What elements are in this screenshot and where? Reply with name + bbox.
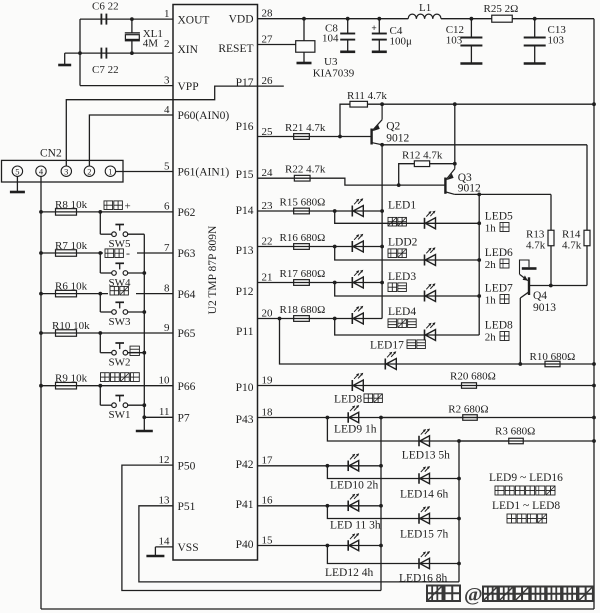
junction Q3 emitter bbox=[453, 102, 457, 106]
LED LED16 bbox=[419, 551, 430, 569]
svg-text:VSS: VSS bbox=[178, 542, 199, 554]
LED8 start label bbox=[334, 394, 382, 406]
wire P7 row pin11 bbox=[144, 416, 173, 418]
svg-text:4.7k: 4.7k bbox=[562, 240, 582, 252]
junction sw common y=312 bbox=[142, 310, 146, 314]
junction sw common y=405.2 bbox=[142, 403, 146, 407]
LED LED7 bbox=[425, 283, 436, 301]
Q2 ref labels bbox=[386, 121, 409, 145]
svg-text:LED10 2h: LED10 2h bbox=[330, 480, 378, 492]
U2 pin 20 label P11 bbox=[236, 307, 273, 338]
svg-text:100μ: 100μ bbox=[390, 36, 413, 48]
U2 pin 13 label P51 bbox=[159, 495, 196, 513]
resistor R12 bbox=[414, 161, 429, 167]
svg-text:27: 27 bbox=[262, 33, 274, 45]
wire switch common bus bbox=[143, 234, 145, 417]
L1 ref label bbox=[419, 2, 431, 14]
svg-text:20: 20 bbox=[262, 307, 274, 319]
svg-text:19: 19 bbox=[262, 374, 274, 386]
svg-text:R6 10k: R6 10k bbox=[55, 281, 88, 293]
svg-text:Q4: Q4 bbox=[533, 290, 547, 302]
svg-text:2h: 2h bbox=[485, 332, 497, 344]
svg-text:R22 4.7k: R22 4.7k bbox=[285, 164, 326, 176]
wire feed LED14 bbox=[327, 466, 459, 479]
junction bus1234 LDD2 bbox=[380, 245, 384, 249]
wire row LED10 bbox=[258, 465, 382, 467]
svg-text:9012: 9012 bbox=[386, 133, 409, 145]
svg-text:LED7: LED7 bbox=[485, 283, 513, 295]
R21 value label bbox=[285, 122, 326, 134]
SW4 ref label bbox=[109, 277, 132, 289]
junction rail right edge bbox=[592, 102, 596, 106]
ground VSS bbox=[146, 547, 164, 556]
R15 value label bbox=[280, 197, 326, 209]
wire feed LED16 bbox=[327, 546, 459, 564]
svg-text:103: 103 bbox=[548, 35, 565, 47]
junction key bus row R8 10k bbox=[39, 210, 43, 214]
LED16 label bbox=[399, 573, 447, 585]
wire P50 route bbox=[122, 465, 381, 590]
resistor R14 bbox=[584, 230, 590, 246]
svg-text:28: 28 bbox=[262, 8, 274, 20]
wire Q2 base bbox=[340, 136, 372, 138]
U2 pin 16 label P41 bbox=[236, 495, 273, 511]
svg-text:6: 6 bbox=[164, 201, 170, 213]
U2 pin 26 label P17 bbox=[236, 75, 273, 89]
R9 10k value label bbox=[55, 373, 88, 385]
svg-text:-: - bbox=[126, 246, 130, 260]
wire feed LED6 bbox=[335, 247, 480, 261]
C8 labels bbox=[322, 23, 339, 45]
C6 value label bbox=[92, 1, 119, 13]
LED LED17 bbox=[385, 351, 396, 369]
svg-text:LED8: LED8 bbox=[485, 320, 513, 332]
svg-text:P15: P15 bbox=[236, 169, 254, 181]
svg-text:C6 22: C6 22 bbox=[92, 1, 119, 13]
svg-text:P63: P63 bbox=[178, 248, 196, 260]
wire R11 left leg bbox=[340, 104, 350, 136]
wire key row y=211.9 bbox=[41, 211, 173, 213]
U2 pin 22 label P13 bbox=[236, 235, 273, 256]
wire R14 top leg bbox=[586, 145, 588, 231]
svg-text:SW1: SW1 bbox=[109, 409, 131, 421]
svg-text:24: 24 bbox=[262, 167, 274, 179]
resistor R8 bbox=[56, 209, 77, 216]
junction busA LED10 bbox=[379, 464, 383, 468]
wire row LED9 bbox=[258, 417, 478, 419]
svg-text:P60(AIN0): P60(AIN0) bbox=[178, 110, 230, 122]
junction tap LED6 bbox=[333, 245, 337, 249]
junction busB LED14 bbox=[457, 477, 461, 481]
LED LED10 bbox=[348, 453, 359, 471]
svg-text:P13: P13 bbox=[236, 245, 254, 257]
junction bus5678 top bbox=[477, 193, 481, 197]
svg-text:18: 18 bbox=[262, 406, 274, 418]
U2 pin 24 label P15 bbox=[236, 167, 273, 181]
junction R10 right edge bbox=[592, 362, 596, 366]
junction bus5678 LED6 bbox=[477, 258, 481, 262]
junction C12 top bbox=[470, 17, 474, 21]
svg-text:LED9 ~ LED16: LED9 ~ LED16 bbox=[489, 472, 563, 484]
resistor R15 bbox=[294, 208, 310, 214]
C7 value label bbox=[92, 64, 119, 76]
svg-text:10: 10 bbox=[159, 375, 171, 387]
junction tap LED16 bbox=[326, 544, 330, 548]
LED4 labels bbox=[388, 306, 416, 328]
U2 pin 10 label P66 bbox=[159, 375, 196, 393]
svg-text:R21 4.7k: R21 4.7k bbox=[285, 122, 326, 134]
junction busA LED 11 bbox=[379, 504, 383, 508]
LED LED13 bbox=[419, 429, 430, 447]
wire bottom rail bbox=[41, 608, 594, 610]
svg-text:P65: P65 bbox=[178, 328, 196, 340]
wire VPP row pin3 bbox=[80, 85, 173, 87]
svg-text:P61(AIN1): P61(AIN1) bbox=[178, 167, 230, 179]
svg-text:23: 23 bbox=[262, 200, 274, 212]
wire row LDD2 bbox=[258, 246, 383, 248]
junction P11 bypass bbox=[278, 317, 282, 321]
svg-text:9012: 9012 bbox=[458, 183, 481, 195]
wire R12 right leg bbox=[430, 163, 455, 165]
wire row LED12 bbox=[258, 545, 382, 547]
resistor R18 bbox=[294, 316, 310, 322]
LED LED14 bbox=[419, 466, 430, 484]
R13 value labels bbox=[526, 229, 546, 252]
svg-text:P40: P40 bbox=[236, 539, 254, 551]
LED13 label bbox=[402, 450, 450, 462]
LED LED 11 bbox=[348, 493, 359, 511]
svg-text:VPP: VPP bbox=[178, 81, 199, 93]
R20 value label bbox=[450, 371, 496, 383]
Q3 ref labels bbox=[458, 172, 481, 195]
junction busB top bbox=[457, 439, 461, 443]
U2 pin 1 label XOUT bbox=[164, 8, 209, 26]
CN2 pin circled 5 bbox=[12, 166, 22, 176]
wire feed LED13 bbox=[327, 418, 509, 442]
wire R13 bottom leg bbox=[550, 246, 552, 286]
resistor R9 bbox=[56, 382, 77, 389]
wire XOUT row pin1 bbox=[80, 18, 173, 20]
capacitor C12 bbox=[460, 19, 482, 64]
watermark toutiao author bbox=[427, 584, 593, 606]
svg-text:R12 4.7k: R12 4.7k bbox=[402, 150, 443, 162]
svg-text:5: 5 bbox=[164, 160, 170, 172]
svg-text:LED16 8h: LED16 8h bbox=[399, 573, 447, 585]
svg-text:R3 680Ω: R3 680Ω bbox=[495, 426, 535, 438]
wire cathode busA LED9-12 bbox=[380, 418, 382, 591]
svg-text:12: 12 bbox=[159, 454, 170, 466]
junction Q4 emitter to row bbox=[518, 362, 522, 366]
LED12 label bbox=[325, 567, 373, 579]
junction tap LED8 bbox=[333, 317, 337, 321]
svg-text:C7 22: C7 22 bbox=[92, 64, 119, 76]
wire VDD top rail pin28 bbox=[258, 18, 409, 20]
note line4 function indicators bbox=[507, 514, 547, 523]
LED LDD2 bbox=[352, 234, 363, 252]
wire row LED3 bbox=[258, 282, 383, 284]
wire XIN row pin2 bbox=[65, 49, 173, 53]
svg-text:1h: 1h bbox=[485, 223, 497, 235]
svg-text:14: 14 bbox=[159, 536, 171, 548]
R16 value label bbox=[280, 232, 326, 244]
LED LED15 bbox=[419, 506, 430, 524]
svg-text:P64: P64 bbox=[178, 289, 196, 301]
svg-text:3: 3 bbox=[164, 74, 170, 86]
wire P17 internal step bbox=[173, 86, 258, 100]
svg-text:1: 1 bbox=[164, 8, 170, 20]
U3 ref labels bbox=[313, 56, 355, 80]
transistor Q4 9013 bbox=[520, 260, 588, 364]
wire P17 stub right bbox=[258, 85, 284, 87]
U2 pin 28 label VDD bbox=[229, 8, 273, 26]
svg-text:R18 680Ω: R18 680Ω bbox=[280, 304, 326, 316]
svg-text:9: 9 bbox=[164, 322, 170, 334]
switch SW2 bbox=[98, 331, 144, 355]
U2 pin 3 label VPP bbox=[164, 74, 199, 92]
junction tap LED5 bbox=[333, 209, 337, 213]
svg-text:LED 11 3h: LED 11 3h bbox=[330, 520, 381, 532]
LED LED6 bbox=[425, 247, 436, 265]
svg-text:P14: P14 bbox=[236, 205, 254, 217]
LED LED9 bbox=[348, 405, 359, 423]
svg-text:P50: P50 bbox=[178, 460, 196, 472]
junction C-loop left bbox=[78, 51, 82, 55]
junction XL1 top bbox=[130, 17, 134, 21]
LED LED1 bbox=[352, 198, 363, 216]
junction C4 top bbox=[377, 17, 381, 21]
svg-text:XOUT: XOUT bbox=[178, 14, 210, 26]
wire R2 row bbox=[381, 417, 594, 419]
resistor R22 bbox=[294, 175, 310, 181]
svg-text:13: 13 bbox=[159, 495, 171, 507]
resistor R3 bbox=[509, 438, 524, 444]
resistor R6 bbox=[56, 290, 77, 297]
R12 value label bbox=[402, 150, 443, 162]
R22 value label bbox=[285, 164, 326, 176]
CN2 pin circled 2 bbox=[84, 166, 94, 176]
LED LED8 bbox=[425, 322, 436, 340]
junction busB LED16 bbox=[457, 562, 461, 566]
switch SW3 bbox=[98, 292, 144, 315]
svg-text:P12: P12 bbox=[236, 286, 254, 298]
LED5 labels bbox=[485, 211, 513, 235]
LED15 label bbox=[400, 529, 448, 541]
R2 value label bbox=[448, 404, 488, 416]
wire LED17 feed bbox=[280, 319, 595, 365]
U2 pin 6 label P62 bbox=[164, 201, 196, 219]
junction tap LED13 bbox=[326, 416, 330, 420]
junction Q2 emitter bbox=[380, 102, 384, 106]
R14 value labels bbox=[562, 229, 582, 252]
junction key bus row R10 10k bbox=[39, 331, 43, 335]
junction R12 right bbox=[453, 162, 457, 166]
junction key bus row R6 10k bbox=[39, 292, 43, 296]
svg-text:R7 10k: R7 10k bbox=[55, 240, 88, 252]
svg-text:2: 2 bbox=[87, 166, 91, 176]
svg-text:P16: P16 bbox=[236, 121, 254, 133]
LED11 label bbox=[330, 520, 381, 532]
LED1 labels bbox=[388, 200, 416, 227]
ground switch common bbox=[136, 417, 153, 431]
wire R3 row bbox=[459, 440, 594, 442]
crystal XL1 bbox=[125, 19, 140, 53]
svg-text:16: 16 bbox=[262, 495, 274, 507]
resistor R20 bbox=[462, 383, 477, 389]
svg-text:9013: 9013 bbox=[533, 302, 556, 314]
wire right edge vertical bbox=[593, 19, 595, 609]
junction busA LED12 bbox=[379, 544, 383, 548]
XL1 labels bbox=[143, 28, 163, 50]
op-amp U2 microcontroller TMP87P809N body bbox=[173, 5, 258, 561]
junction R20 right edge bbox=[592, 384, 596, 388]
junction P7 sw common bbox=[142, 415, 146, 419]
C13 labels bbox=[548, 24, 567, 47]
svg-text:LED3: LED3 bbox=[388, 271, 416, 283]
wire R25 to corner bbox=[512, 18, 594, 20]
wire P51 route bbox=[139, 506, 459, 582]
svg-text:17: 17 bbox=[262, 455, 274, 467]
junction tap LED7 bbox=[333, 281, 337, 285]
wire CN2 pin1 to P61 bbox=[116, 171, 173, 173]
junction R2 right edge bbox=[592, 416, 596, 420]
svg-text:11: 11 bbox=[159, 406, 170, 418]
LED3 labels bbox=[388, 271, 416, 292]
key function label timer plus bbox=[104, 201, 131, 213]
svg-text:P41: P41 bbox=[236, 499, 254, 511]
svg-text:R25 2Ω: R25 2Ω bbox=[484, 3, 519, 15]
wire R14 bottom leg bbox=[586, 246, 588, 286]
svg-text:R9 10k: R9 10k bbox=[55, 373, 88, 385]
U2 pin 7 label P63 bbox=[164, 242, 196, 260]
LED LED3 bbox=[352, 270, 363, 288]
R17 value label bbox=[280, 268, 326, 280]
U2 pin 5 label P61(AIN1) bbox=[164, 160, 229, 178]
svg-text:15: 15 bbox=[262, 534, 274, 546]
wire P60 to CN2 pin2 bbox=[89, 115, 173, 166]
junction sw common y=273 bbox=[142, 271, 146, 275]
SW5 ref label bbox=[109, 238, 132, 250]
svg-text:R17 680Ω: R17 680Ω bbox=[280, 268, 326, 280]
wire row LED4 bbox=[258, 318, 383, 320]
junction bus1234 LED3 bbox=[380, 281, 384, 285]
wire anode bus LED5-8 bbox=[478, 194, 480, 335]
svg-text:LED1: LED1 bbox=[388, 200, 416, 212]
svg-text:U3: U3 bbox=[324, 56, 338, 68]
Q4 ref labels bbox=[533, 290, 556, 314]
ground osc bbox=[58, 53, 71, 65]
wire R12 left leg bbox=[399, 164, 415, 185]
LED LED8-start bbox=[352, 373, 363, 391]
reset IC U3 KIA7039 box bbox=[296, 19, 315, 53]
junction R21-R11 bbox=[338, 135, 342, 139]
wire Q3 collector line bbox=[455, 193, 551, 195]
U2 pin 4 label P60(AIN0) bbox=[164, 104, 229, 122]
wire P15 row pin24 bbox=[258, 178, 446, 185]
svg-text:P42: P42 bbox=[236, 459, 254, 471]
resistor R10 bbox=[56, 330, 77, 337]
svg-text:L1: L1 bbox=[419, 2, 431, 14]
LED6 labels bbox=[485, 247, 513, 271]
svg-text:22: 22 bbox=[262, 235, 273, 247]
switch SW5 bbox=[98, 210, 144, 237]
svg-text:RESET: RESET bbox=[218, 43, 253, 55]
resistor R2 bbox=[463, 415, 478, 421]
key function label start bbox=[108, 286, 136, 295]
LED LED5 bbox=[425, 211, 436, 229]
LDD2 labels bbox=[388, 237, 418, 258]
junction Q2 collector bbox=[380, 143, 384, 147]
svg-text:P62: P62 bbox=[178, 207, 196, 219]
SW2 ref label bbox=[109, 357, 131, 369]
connector CN2 box bbox=[2, 160, 124, 182]
U2 pin 21 label P12 bbox=[236, 271, 273, 298]
junction C13 top bbox=[533, 17, 537, 21]
svg-text:26: 26 bbox=[262, 75, 274, 87]
wire feed LED5 bbox=[335, 211, 480, 223]
svg-text:+: + bbox=[371, 24, 376, 34]
svg-text:Q2: Q2 bbox=[386, 121, 400, 133]
wire emitter rail bbox=[368, 103, 595, 105]
wire RESET pin27 to U3 bbox=[258, 44, 296, 46]
resistor R21 bbox=[294, 134, 310, 140]
wire P17 to CN2 pin3 bbox=[66, 100, 173, 166]
LED10 label bbox=[330, 480, 378, 492]
R10 value label bbox=[530, 351, 576, 363]
wire L1 to R25 bbox=[441, 18, 492, 20]
junction sw common y=352.7 bbox=[142, 351, 146, 355]
ground CN2 pin5 bbox=[10, 176, 25, 192]
U2 pin 25 label P16 bbox=[236, 121, 273, 138]
junction tap LED15 bbox=[326, 504, 330, 508]
CN2 pin circled 4 bbox=[36, 166, 46, 176]
svg-text:1: 1 bbox=[108, 166, 112, 176]
svg-text:LED4: LED4 bbox=[388, 306, 416, 318]
switch SW4 bbox=[98, 251, 144, 275]
svg-text:P10: P10 bbox=[236, 382, 254, 394]
junction bus5678 LED7 bbox=[477, 294, 481, 298]
key function label timer minus bbox=[103, 246, 137, 260]
transistor Q2 9012 bbox=[372, 104, 383, 145]
svg-text:4: 4 bbox=[164, 104, 170, 116]
svg-text:P17: P17 bbox=[236, 77, 254, 89]
U2 pin 8 label P64 bbox=[164, 282, 196, 300]
svg-text:KIA7039: KIA7039 bbox=[313, 68, 355, 80]
CN2 pin circled 1 bbox=[105, 166, 115, 176]
svg-text:VDD: VDD bbox=[229, 14, 254, 26]
R10 10k value label bbox=[52, 320, 90, 332]
svg-text:P11: P11 bbox=[236, 326, 254, 338]
svg-text:LED8: LED8 bbox=[334, 394, 362, 406]
svg-text:LED14 6h: LED14 6h bbox=[400, 489, 448, 501]
wire R13 top leg bbox=[550, 194, 552, 230]
svg-text:P43: P43 bbox=[236, 414, 254, 426]
capacitor C6 bbox=[101, 14, 106, 25]
junction bus5678 LED5 bbox=[477, 221, 481, 225]
svg-text:R11 4.7k: R11 4.7k bbox=[347, 90, 387, 102]
resistor R17 bbox=[294, 280, 310, 286]
C4 labels bbox=[390, 25, 413, 48]
wire left osc loop vertical bbox=[79, 19, 81, 86]
SW3 ref label bbox=[109, 316, 132, 328]
R11 value label bbox=[347, 90, 387, 102]
svg-text:8: 8 bbox=[164, 282, 170, 294]
wire Q2 collector line bbox=[382, 144, 587, 146]
svg-text:XIN: XIN bbox=[178, 44, 199, 56]
SW1 ref label bbox=[109, 409, 131, 421]
svg-text:1h: 1h bbox=[485, 295, 497, 307]
capacitor C13 bbox=[524, 19, 546, 64]
U2 pin 14 label VSS bbox=[159, 536, 199, 554]
